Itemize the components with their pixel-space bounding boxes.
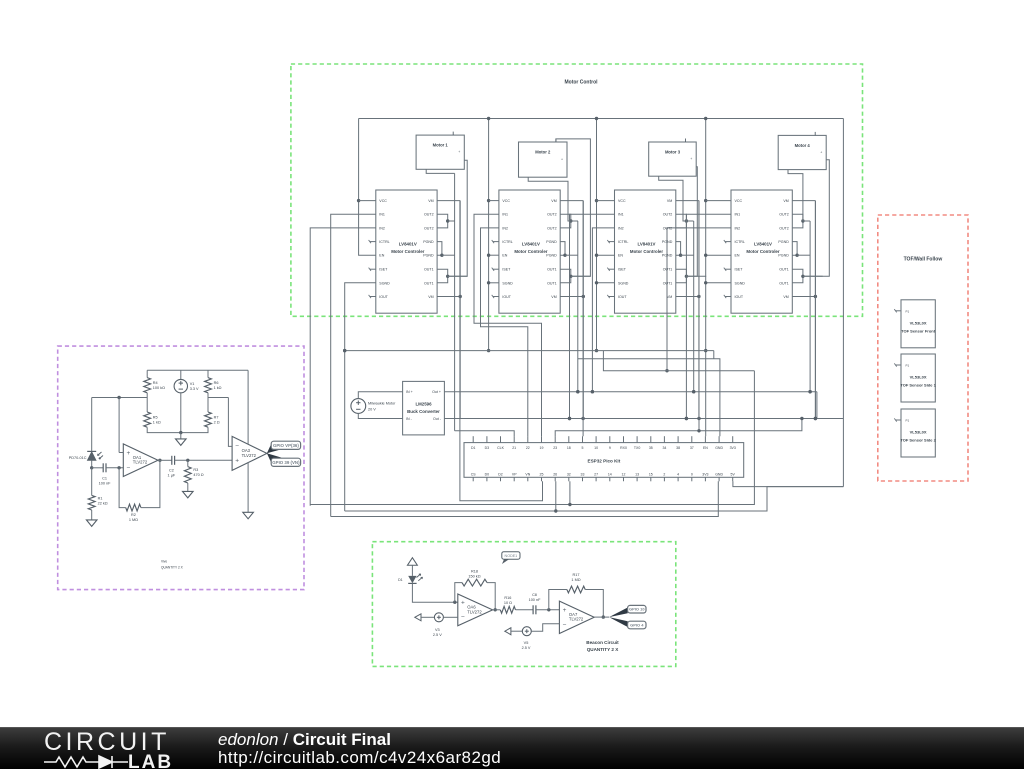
svg-text:D1: D1 <box>398 578 403 582</box>
svg-text:SGND: SGND <box>502 281 513 285</box>
motor M2 terminal marks <box>555 139 557 143</box>
svg-text:+: + <box>127 450 131 457</box>
wire bus H4 jog <box>603 351 754 371</box>
capacitor C8 <box>532 605 534 614</box>
svg-text:OUT2: OUT2 <box>547 213 557 217</box>
svg-text:RX0: RX0 <box>620 446 627 450</box>
capacitor C2 <box>171 456 173 465</box>
wire 5V top rail <box>359 118 844 120</box>
svg-text:25: 25 <box>540 472 544 476</box>
motor M1 terminal marks <box>452 132 454 136</box>
motor controller U4 LV8401V <box>731 190 792 313</box>
svg-text:OUT1: OUT1 <box>663 268 673 272</box>
wire OA3 V+ supply <box>247 370 249 444</box>
svg-text:OUT2: OUT2 <box>779 213 789 217</box>
svg-text:Motor Controler: Motor Controler <box>391 249 424 254</box>
svg-text:Motor 2: Motor 2 <box>535 150 551 155</box>
wire OA6 out <box>493 609 501 611</box>
op-amp OA7 TLV272 <box>559 601 594 633</box>
svg-text:GPIO 10: GPIO 10 <box>629 607 645 612</box>
wire flag to LED <box>411 565 413 576</box>
svg-text:P1: P1 <box>906 309 910 313</box>
wire C2 to OA3 + <box>175 459 233 461</box>
svg-text:Motor Controler: Motor Controler <box>746 249 779 254</box>
wire flag to V5 <box>511 630 522 632</box>
wire OUT2 join U4 <box>792 214 803 228</box>
svg-text:Milwaukie Motor: Milwaukie Motor <box>368 402 396 406</box>
op-amp OA3 TLV272 <box>232 436 267 470</box>
node flag V5 <box>505 628 511 635</box>
wire VM join U2 <box>560 200 583 202</box>
svg-text:PD70-01C: PD70-01C <box>69 456 87 460</box>
pin stubs U4 <box>725 241 731 243</box>
motor M2 <box>519 142 568 177</box>
svg-text:VM: VM <box>551 199 556 203</box>
svg-text:OUT1: OUT1 <box>547 268 557 272</box>
svg-text:OUT2: OUT2 <box>424 213 434 217</box>
wire PGND join U2 <box>560 242 565 256</box>
wire OA7 out <box>594 616 609 618</box>
svg-text:TLV272: TLV272 <box>133 460 148 465</box>
flag GPIO 39 (VN) <box>271 458 300 466</box>
svg-text:D3: D3 <box>485 446 490 450</box>
svg-text:VCC: VCC <box>618 199 626 203</box>
ground OA3 <box>243 512 254 519</box>
ESP32 Pico Kit module <box>464 443 744 478</box>
wire M1- to OUT2 <box>426 169 454 173</box>
svg-text:VM: VM <box>667 295 672 299</box>
wire VM U1 drop to ESP pin 25 <box>460 297 543 501</box>
svg-text:5: 5 <box>582 446 584 450</box>
svg-text:+: + <box>561 158 563 162</box>
op-amp OA6 TLV272 <box>458 594 493 626</box>
svg-text:+: + <box>235 458 239 465</box>
flag GPIO VP(36) <box>271 441 300 449</box>
wire IN2 U4 <box>667 228 731 371</box>
wire M3+ to OUT1 <box>687 167 697 276</box>
svg-text:18: 18 <box>567 446 571 450</box>
motor M3 terminal marks <box>685 139 687 143</box>
svg-text:ICTRL: ICTRL <box>735 240 745 244</box>
svg-text:1 MΩ: 1 MΩ <box>571 578 580 582</box>
source V1 3.3V <box>174 379 187 392</box>
wire to R3 <box>187 460 189 466</box>
wire A-drop U1 <box>454 173 456 430</box>
svg-text:IN2: IN2 <box>379 226 385 230</box>
TOF sensor VL53L0X 3 <box>901 409 935 457</box>
svg-text:PGND: PGND <box>546 254 557 258</box>
svg-text:3V3: 3V3 <box>702 472 708 476</box>
wire bus Lbus1 <box>310 371 754 505</box>
svg-text:IN2: IN2 <box>618 226 624 230</box>
svg-text:10: 10 <box>594 446 598 450</box>
svg-text:R7: R7 <box>214 415 219 419</box>
ground R1 <box>86 520 97 527</box>
svg-text:P1: P1 <box>906 364 910 368</box>
purple dashed box sensor amp <box>58 346 304 589</box>
svg-text:CS: CS <box>471 472 477 476</box>
svg-text:ISET: ISET <box>618 268 627 272</box>
wire V3 to OA6 - <box>443 616 457 618</box>
wire VM join U1 <box>437 200 460 202</box>
svg-text:27: 27 <box>594 472 598 476</box>
wire VM join U3 <box>676 200 699 202</box>
wire M2- to OUT2 <box>528 177 571 221</box>
svg-text:Motor 1: Motor 1 <box>433 143 449 148</box>
svg-text:IN1: IN1 <box>735 213 741 217</box>
wire bus Lbus3 <box>331 481 719 516</box>
wire PGND join U1 <box>437 242 442 256</box>
svg-text:TOF Sensor Front: TOF Sensor Front <box>901 328 936 333</box>
resistor R1 <box>88 495 95 510</box>
wire M1+ to OUT1 <box>447 160 467 276</box>
wire IN2 U3 <box>592 228 614 392</box>
svg-text:12: 12 <box>622 472 626 476</box>
svg-text:OUT2: OUT2 <box>779 226 789 230</box>
motor M1 <box>416 135 464 169</box>
svg-text:C8: C8 <box>532 593 537 597</box>
svg-text:V5: V5 <box>524 641 529 645</box>
svg-text:GPIO 39 (VN): GPIO 39 (VN) <box>272 460 300 465</box>
svg-text:LV8401V: LV8401V <box>399 241 417 246</box>
svg-text:100 kΩ: 100 kΩ <box>153 386 165 390</box>
svg-text:D2: D2 <box>498 472 503 476</box>
flag GPIO 4 <box>628 621 646 629</box>
svg-text:EN: EN <box>618 254 623 258</box>
svg-text:PGND: PGND <box>546 240 557 244</box>
svg-text:GND: GND <box>715 446 723 450</box>
svg-text:EN: EN <box>379 254 384 258</box>
svg-text:IN2: IN2 <box>735 226 741 230</box>
svg-text:OUT1: OUT1 <box>779 268 789 272</box>
node OA6 out <box>494 608 497 611</box>
svg-text:CLK: CLK <box>497 446 504 450</box>
svg-text:VL53L0X: VL53L0X <box>910 430 927 435</box>
svg-text:+: + <box>458 150 460 154</box>
wire row R5b to ESP pin 23 <box>555 419 802 437</box>
svg-text:IN1: IN1 <box>502 213 508 217</box>
svg-text:OUT2: OUT2 <box>547 226 557 230</box>
motor controller U3 LV8401V <box>615 190 676 313</box>
svg-text:IN1: IN1 <box>379 213 385 217</box>
node OA1 output <box>158 459 161 462</box>
wire PGND join U3 <box>676 242 681 256</box>
wire ESP 5V to right rail <box>733 481 844 486</box>
svg-text:IN2: IN2 <box>502 226 508 230</box>
svg-text:VM: VM <box>428 199 433 203</box>
svg-text:IOUT: IOUT <box>618 295 627 299</box>
ground V1 <box>176 439 187 446</box>
wire IN1 U4 <box>686 214 731 418</box>
wire OA3 V- to ground <box>247 462 249 512</box>
wire rail drop ctrl1 <box>359 119 376 256</box>
svg-text:ESP32 Pico Kit: ESP32 Pico Kit <box>588 459 621 464</box>
wire H2 end jog down <box>713 351 715 359</box>
svg-text:9: 9 <box>609 446 611 450</box>
resistor R17 <box>567 586 585 593</box>
svg-text:VM: VM <box>551 295 556 299</box>
footer CircuitLab logo <box>0 727 1024 769</box>
svg-text:5V: 5V <box>731 472 736 476</box>
svg-text:−: − <box>563 622 567 629</box>
svg-text:SGND: SGND <box>379 281 390 285</box>
resistor R6 <box>205 378 212 393</box>
resistor R16 <box>500 606 515 613</box>
wire A-drop U2 <box>577 221 579 392</box>
svg-text:LM2596: LM2596 <box>415 401 432 406</box>
wire M2+ to OUT1 <box>556 139 590 276</box>
wire OUT2 join U3 <box>676 214 687 228</box>
op-amp OA1 TLV272 <box>123 444 158 477</box>
svg-text:VCC: VCC <box>735 199 743 203</box>
svg-text:3.3 V: 3.3 V <box>190 387 199 391</box>
wire OUT1 join U3 <box>676 269 687 283</box>
NODE1 flag <box>502 552 520 560</box>
svg-text:37: 37 <box>690 446 694 450</box>
svg-text:−: − <box>235 443 239 450</box>
wire bus H3 to ESP GND top <box>578 359 720 436</box>
svg-text:IN -: IN - <box>406 417 413 421</box>
svg-text:34: 34 <box>662 446 666 450</box>
LED D1 <box>408 576 416 583</box>
svg-text:EN: EN <box>735 254 740 258</box>
svg-text:Out +: Out + <box>432 390 441 394</box>
svg-text:LV8401V: LV8401V <box>522 241 540 246</box>
resistor R5 <box>144 412 151 427</box>
svg-text:1 MΩ: 1 MΩ <box>129 518 138 522</box>
wire OA1 + input <box>119 452 123 454</box>
wire B-drop U2 to ESP pin 5 <box>582 201 584 437</box>
svg-text:2 Ω: 2 Ω <box>214 420 220 424</box>
svg-text:VM: VM <box>783 295 788 299</box>
svg-text:−: − <box>461 614 465 621</box>
wire OA1 out to C2 <box>158 459 172 461</box>
svg-text:TLV272: TLV272 <box>467 609 482 614</box>
TOF sensor VL53L0X 1 <box>901 300 935 348</box>
wire bus Out+ <box>444 391 817 393</box>
svg-text:R1: R1 <box>98 497 103 501</box>
svg-text:13: 13 <box>635 472 639 476</box>
source V milwaukee 20V <box>351 399 366 414</box>
wire IN1 U3 <box>570 214 615 418</box>
svg-text:2: 2 <box>663 472 665 476</box>
svg-text:IOUT: IOUT <box>379 295 388 299</box>
svg-text:+: + <box>563 607 567 614</box>
svg-text:Beacon Circuit: Beacon Circuit <box>586 640 619 645</box>
svg-text:NODE1: NODE1 <box>505 554 518 558</box>
flag GPIO 10 <box>628 605 646 613</box>
svg-text:OUT1: OUT1 <box>424 281 434 285</box>
node OA7 out <box>602 615 605 618</box>
wire source+ to IN+ <box>358 392 402 399</box>
resistor R18 feedback <box>455 583 462 603</box>
svg-text:IOUT: IOUT <box>502 295 511 299</box>
wire M4+ to OUT1 <box>804 160 830 277</box>
svg-text:−: − <box>127 464 131 471</box>
wire ESP pin26 drop <box>555 481 557 511</box>
svg-text:1 µF: 1 µF <box>168 474 176 478</box>
svg-text:4: 4 <box>677 472 679 476</box>
svg-text:21: 21 <box>512 446 516 450</box>
motor M4 terminal marks <box>814 132 816 136</box>
wire IN2 U1 <box>310 228 376 506</box>
wire OUT2 join U1 <box>437 214 448 228</box>
svg-text:Motor Control: Motor Control <box>564 79 598 85</box>
wire rail drop ctrl4 to ESP EN <box>705 119 707 437</box>
svg-text:V3: V3 <box>435 628 440 632</box>
svg-text:100 nF: 100 nF <box>99 481 112 485</box>
TOF sensor VL53L0X 2 <box>901 354 935 402</box>
svg-text:Out -: Out - <box>433 417 442 421</box>
svg-text:VL53L0X: VL53L0X <box>910 320 927 325</box>
svg-text:V1: V1 <box>190 382 195 386</box>
flag wedges OA7 <box>609 608 628 618</box>
wire row R5a to ESP pin 21 <box>455 431 515 436</box>
wire A-drop U4 <box>809 221 811 392</box>
svg-text:QUANTITY 2 X: QUANTITY 2 X <box>587 647 620 652</box>
wire SGND U2 to rail drop <box>489 282 499 284</box>
svg-text:R2: R2 <box>131 513 136 517</box>
svg-text:R5: R5 <box>153 415 158 419</box>
wire B-drop U3 <box>698 201 700 431</box>
svg-text:38: 38 <box>676 446 680 450</box>
svg-text:OUT1: OUT1 <box>663 281 673 285</box>
svg-text:ISET: ISET <box>502 268 511 272</box>
svg-text:EN: EN <box>502 254 507 258</box>
svg-text:OUT1: OUT1 <box>779 281 789 285</box>
resistor R18 <box>462 579 487 586</box>
svg-text:23: 23 <box>553 446 557 450</box>
wire top rail purple <box>147 369 248 371</box>
pin stubs U2 <box>493 241 499 243</box>
node photodiode-C1-R1 <box>90 466 93 469</box>
wire left mid node <box>92 397 148 399</box>
svg-text:VCC: VCC <box>379 199 387 203</box>
wire SGND U3 to rail drop <box>597 282 615 284</box>
wire VM join U4 <box>792 200 815 202</box>
wire OUT1 join U4 <box>792 269 803 283</box>
wire ESP pin32 drop <box>569 481 571 504</box>
svg-text:14: 14 <box>608 472 612 476</box>
svg-text:ICTRL: ICTRL <box>379 240 389 244</box>
svg-text:VM: VM <box>428 295 433 299</box>
svg-text:33: 33 <box>581 472 585 476</box>
svg-text:ISET: ISET <box>379 268 388 272</box>
svg-text:LAB: LAB <box>128 752 173 769</box>
svg-text:VM: VM <box>783 199 788 203</box>
source V5 2.5V <box>522 627 531 636</box>
wire A-drop U3 <box>693 221 695 392</box>
svg-text:GPIO 4: GPIO 4 <box>630 623 644 628</box>
svg-text:R17: R17 <box>573 573 580 577</box>
svg-text:OUT1: OUT1 <box>424 268 434 272</box>
wire bottom rail purple <box>147 427 208 432</box>
svg-text:OUT1: OUT1 <box>547 281 557 285</box>
svg-text:D1: D1 <box>471 446 476 450</box>
svg-text:Motor Controler: Motor Controler <box>514 249 547 254</box>
resistor R7 <box>205 412 212 427</box>
svg-text:Motor 3: Motor 3 <box>665 150 681 155</box>
resistor R3 <box>184 467 191 483</box>
svg-text:TX0: TX0 <box>634 446 640 450</box>
svg-text:26: 26 <box>553 472 557 476</box>
svg-text:Motor 4: Motor 4 <box>795 143 811 148</box>
svg-text:GND: GND <box>715 472 723 476</box>
svg-text:R6: R6 <box>214 381 219 385</box>
wire bus Out- <box>444 418 843 420</box>
svg-text:R4: R4 <box>153 381 158 385</box>
svg-text:1 kΩ: 1 kΩ <box>214 386 222 390</box>
svg-text:15: 15 <box>649 472 653 476</box>
svg-text:SGND: SGND <box>618 281 629 285</box>
svg-text:OUT2: OUT2 <box>663 213 673 217</box>
svg-text:R18: R18 <box>471 570 478 574</box>
svg-text:TLV272: TLV272 <box>242 453 257 458</box>
svg-text:IOUT: IOUT <box>735 295 744 299</box>
wire source- to IN- <box>358 413 402 418</box>
svg-text:0: 0 <box>691 472 693 476</box>
svg-text:C2: C2 <box>169 469 174 473</box>
wire IN1 U1 <box>331 214 376 516</box>
resistor R17 feedback <box>549 590 567 610</box>
svg-text:1 kΩ: 1 kΩ <box>153 420 161 424</box>
svg-text:R16: R16 <box>504 596 511 600</box>
svg-text:PGND: PGND <box>778 240 789 244</box>
svg-text:470 Ω: 470 Ω <box>193 473 203 477</box>
flag wedges OA3 <box>267 444 282 454</box>
wire SGND drop U1 <box>345 283 376 511</box>
motor M4 <box>778 135 826 169</box>
svg-text:PGND: PGND <box>423 254 434 258</box>
wire B-drop U4 <box>814 201 816 419</box>
svg-text:P1: P1 <box>906 419 910 423</box>
wire M4- to OUT2 <box>788 170 803 221</box>
wire node to photodiode <box>91 398 93 452</box>
svg-text:C1: C1 <box>102 476 107 480</box>
svg-text:VM: VM <box>667 199 672 203</box>
svg-text:VN: VN <box>525 472 530 476</box>
ground R3 <box>183 491 194 498</box>
wire right mid node <box>208 397 228 399</box>
wire IN2 U2 to ESP pin22 <box>481 228 528 436</box>
svg-text:TOF Sensor Side 2: TOF Sensor Side 2 <box>900 438 936 443</box>
svg-text:Buck Converter: Buck Converter <box>407 409 440 414</box>
wire PGND join U4 <box>792 242 797 256</box>
svg-text:PGND: PGND <box>423 240 434 244</box>
wire OA1 feedback <box>119 468 126 508</box>
wire bus H2 <box>345 350 714 352</box>
svg-text:Motor Controler: Motor Controler <box>630 249 663 254</box>
svg-text:+: + <box>461 600 465 607</box>
wire V5 to OA7 - <box>531 624 559 631</box>
svg-text:20 V: 20 V <box>368 407 376 411</box>
svg-text:D0: D0 <box>485 472 490 476</box>
pin P1 <box>896 364 902 366</box>
svg-text:OUT2: OUT2 <box>424 226 434 230</box>
motor M3 <box>649 142 697 176</box>
svg-text:10 Ω: 10 Ω <box>504 601 512 605</box>
resistor R2 <box>126 504 141 511</box>
wire LED to OA6 + <box>412 583 457 602</box>
wire IN1 U2 to ESP pin19 <box>474 214 542 436</box>
svg-text:TOF Sensor Side 1: TOF Sensor Side 1 <box>900 383 936 388</box>
svg-text:GPIO VP(36): GPIO VP(36) <box>273 443 299 448</box>
motor controller U1 LV8401V <box>376 190 437 313</box>
red dashed box TOF/Wall Follow <box>878 215 968 481</box>
wire to C1 <box>92 467 104 469</box>
green dashed box Beacon Circuit <box>372 542 675 667</box>
wire M3- to OUT2 <box>659 176 687 221</box>
